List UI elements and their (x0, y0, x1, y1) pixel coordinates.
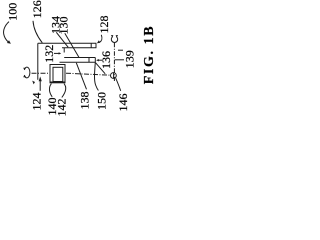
centerline left (dash-dot) (32, 72, 51, 74)
leader 100 squiggle (4, 22, 9, 42)
leader 126 (33, 21, 42, 43)
leader 142 (62, 84, 66, 98)
svg-text:100: 100 (6, 3, 20, 21)
svg-text:139: 139 (123, 50, 137, 68)
arrowhead 100 (down-left) (7, 40, 11, 44)
stray wedge bottom-left of body (32, 81, 35, 85)
pivot axis vertical (dash-dot) (113, 43, 115, 81)
svg-text:142: 142 (55, 99, 69, 117)
bar2 end cap (94, 58, 96, 63)
arrowhead 128 (down-left) (97, 40, 100, 43)
bar1 divider tick (90, 43, 92, 48)
die inner rect (53, 67, 63, 81)
axis tick in circle (112, 73, 115, 79)
136 arrow shaft (98, 59, 102, 61)
arrowhead 136 (left) (96, 59, 99, 61)
bar2 bottom line (60, 61, 96, 63)
leader 128 (J-hook) (100, 35, 102, 43)
svg-text:FIG. 1B: FIG. 1B (142, 25, 157, 84)
body left edge (37, 43, 39, 80)
svg-text:128: 128 (97, 16, 111, 34)
leader 140 (49, 84, 52, 97)
leader 150 (long S down bar2 cap) (95, 62, 99, 90)
bar2 top line (64, 57, 95, 59)
leader 146 (116, 78, 121, 91)
centerline right (dash-dot) (66, 73, 110, 75)
rotation symbol top (arc) (111, 37, 117, 43)
arrowhead 132 (right) (59, 52, 62, 54)
body top edge (38, 42, 97, 44)
bar1 bottom line (62, 47, 96, 49)
svg-text:138: 138 (77, 92, 91, 110)
svg-text:150: 150 (95, 92, 109, 110)
diagonal cap to pivot (95, 63, 105, 74)
132 arrow shaft (54, 52, 59, 54)
tick under bar1 (pointed by 132) (63, 48, 65, 53)
svg-text:146: 146 (116, 94, 130, 112)
leader 138 (76, 63, 86, 90)
leader 139 (115, 59, 124, 61)
leader 134 (56, 32, 68, 47)
rotation symbol barbs top (111, 35, 114, 38)
svg-text:124: 124 (30, 93, 44, 111)
tick near 139 (118, 49, 123, 51)
bar1 end cap (95, 43, 97, 48)
svg-text:132: 132 (42, 45, 56, 63)
leader 124 shaft (39, 81, 41, 91)
bar2 divider tick (88, 58, 90, 63)
leader 130 (65, 33, 79, 57)
arrowhead 124 (up) (39, 77, 42, 82)
rotation ellipse barbs (23, 68, 26, 71)
die square thick bottom (50, 81, 65, 83)
svg-text:136: 136 (99, 51, 113, 69)
pivot circle (111, 73, 117, 79)
rotation ellipse left (24, 67, 30, 78)
die outer square (50, 65, 65, 83)
svg-text:130: 130 (57, 16, 71, 34)
svg-text:126: 126 (30, 0, 44, 18)
